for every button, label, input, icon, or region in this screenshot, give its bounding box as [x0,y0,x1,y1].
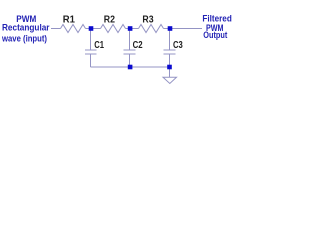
svg-text:C1: C1 [94,40,104,51]
wire R2 to node B [126,28,129,30]
wire ground rail [91,66,170,68]
capacitor C3 lead top [169,30,171,50]
svg-text:Output: Output [203,30,227,40]
node D junction (rail C2) [128,65,133,70]
capacitor C3 plates [164,50,176,54]
capacitor C3 lead bottom [169,54,171,67]
svg-text:R2: R2 [104,14,116,25]
node C junction [168,26,173,31]
svg-text:R3: R3 [142,14,154,25]
svg-text:wave (input): wave (input) [1,34,47,44]
capacitor C1 lead bottom [90,54,92,67]
wire output segment [172,28,202,30]
svg-text:R1: R1 [63,14,76,25]
wire node B to R3 [132,28,139,30]
svg-text:Rectangular: Rectangular [2,23,50,33]
wire input segment [51,28,61,30]
resistor R1 [61,25,86,33]
resistor R3 [139,25,164,33]
wire node A to R2 [93,28,101,30]
node E junction (rail C3) [167,65,172,70]
wire R1 to node A [86,28,90,30]
node B junction [128,26,133,31]
capacitor C2 lead bottom [129,54,131,67]
resistor R2 [101,25,126,33]
wire R3 to node C [164,28,169,30]
ground [163,77,177,83]
capacitor C1 lead top [90,30,92,50]
wire ground lead [169,67,171,77]
node A junction [89,26,94,31]
capacitor C2 lead top [129,30,131,50]
capacitor C1 plates [85,50,97,54]
svg-text:C2: C2 [133,40,143,51]
svg-text:C3: C3 [173,40,183,51]
capacitor C2 plates [124,50,136,54]
